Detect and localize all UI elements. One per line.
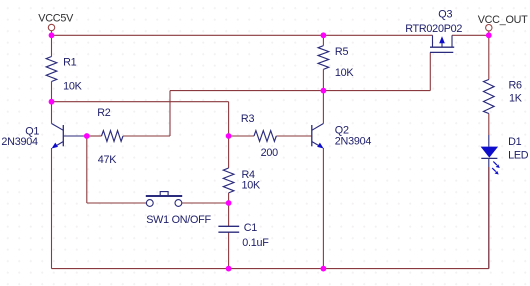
- svg-text:SW1 ON/OFF: SW1 ON/OFF: [146, 214, 211, 226]
- svg-text:10K: 10K: [63, 80, 83, 92]
- svg-text:RTR020P02: RTR020P02: [405, 23, 462, 35]
- svg-text:R6: R6: [509, 79, 523, 91]
- svg-text:2N3904: 2N3904: [335, 136, 372, 148]
- svg-text:10K: 10K: [335, 67, 355, 79]
- svg-text:D1: D1: [508, 136, 522, 148]
- svg-text:VCC_OUT: VCC_OUT: [478, 14, 528, 26]
- svg-text:Q3: Q3: [438, 8, 452, 20]
- svg-text:C1: C1: [244, 222, 258, 234]
- svg-text:0.1uF: 0.1uF: [242, 237, 269, 249]
- svg-text:R3: R3: [241, 113, 255, 125]
- svg-text:200: 200: [261, 147, 279, 159]
- svg-text:R5: R5: [335, 46, 349, 58]
- svg-text:10K: 10K: [242, 180, 262, 192]
- svg-text:LED: LED: [508, 149, 529, 161]
- svg-text:47K: 47K: [98, 154, 118, 166]
- svg-text:2N3904: 2N3904: [1, 136, 38, 148]
- svg-text:R2: R2: [97, 107, 111, 119]
- svg-text:1K: 1K: [509, 93, 523, 105]
- svg-text:R1: R1: [63, 56, 77, 68]
- svg-text:VCC5V: VCC5V: [38, 12, 74, 24]
